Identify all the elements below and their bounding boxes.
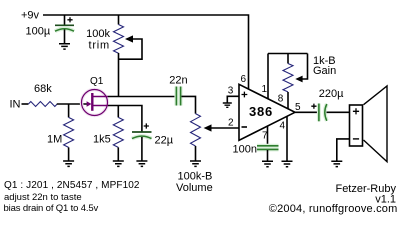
capacitor 22u (source bypass) — [132, 123, 174, 146]
pin 1 wire up to gain rail — [267, 54, 269, 99]
svg-text:386: 386 — [249, 104, 273, 119]
svg-text:Volume: Volume — [176, 182, 213, 194]
capacitor 220u (output) — [311, 88, 344, 121]
svg-text:Q1 : J201 , 2N5457 , MPF102: Q1 : J201 , 2N5457 , MPF102 — [4, 180, 140, 191]
wire source junction down to 1k5 — [117, 106, 119, 118]
ground (100n) — [262, 161, 273, 166]
svg-text:Gain: Gain — [313, 65, 336, 77]
wire trim bottom to drain line — [118, 53, 120, 97]
ground (speaker) — [331, 161, 342, 166]
trim wiper arrow — [125, 35, 133, 42]
wire trim drop from rail — [118, 15, 120, 25]
wire 68k to gate — [57, 103, 87, 105]
svg-text:2: 2 — [228, 118, 234, 129]
wire source line to 22u — [108, 106, 142, 132]
svg-text:100k-B: 100k-B — [178, 171, 213, 183]
wire gain wiper bracket — [302, 54, 308, 80]
capacitor 22n (coupling) — [169, 75, 187, 106]
wire pin 5 to 220u — [295, 111, 318, 113]
svg-text:+9v: +9v — [21, 10, 40, 22]
resistor 1k-B gain pot — [283, 54, 336, 92]
svg-text:100n: 100n — [233, 143, 257, 155]
wire speaker minus to ground — [337, 139, 350, 161]
svg-text:Q1: Q1 — [90, 76, 104, 87]
resistor 68k — [28, 83, 57, 107]
wire 22n to volume pot — [182, 96, 196, 113]
pin 7 wire to 100n — [267, 126, 269, 145]
svg-text:4: 4 — [280, 121, 286, 132]
pin 4 wire to ground — [286, 116, 288, 161]
svg-text:1M: 1M — [47, 134, 62, 146]
wire +9v rail to pin 6 — [43, 15, 249, 89]
wire 100u to ground — [64, 30, 66, 44]
pin 8 wire from gain resistor — [287, 92, 289, 109]
svg-text:100µ: 100µ — [26, 26, 51, 38]
svg-text:22µ: 22µ — [155, 135, 174, 147]
svg-text:8: 8 — [278, 94, 284, 105]
svg-text:5: 5 — [295, 102, 301, 113]
svg-text:©2004, runoffgroove.com: ©2004, runoffgroove.com — [269, 203, 398, 215]
svg-text:1: 1 — [262, 84, 268, 95]
svg-text:68k: 68k — [34, 83, 52, 95]
resistor 100k-B volume pot — [176, 114, 213, 194]
ground (100u) — [59, 44, 70, 49]
svg-text:100k: 100k — [86, 28, 110, 40]
svg-text:7: 7 — [262, 131, 268, 142]
svg-text:3: 3 — [228, 86, 234, 97]
wire trim wiper bracket — [119, 39, 143, 59]
transistor Q1 JFET — [82, 76, 109, 116]
wire gain top rail — [268, 53, 308, 55]
ground (1k5) — [113, 161, 124, 166]
wire volume wiper to pin 2 — [211, 127, 240, 129]
resistor 100k trim — [86, 25, 123, 54]
wire 220u to speaker — [327, 111, 350, 113]
svg-text:6: 6 — [241, 74, 247, 85]
svg-text:bias drain of Q1 to 4.5v: bias drain of Q1 to 4.5v — [4, 203, 99, 214]
resistor 1M — [47, 104, 74, 161]
volume wiper arrow — [204, 124, 212, 131]
pin 3 wire to ground — [227, 96, 239, 102]
speaker — [350, 86, 388, 162]
capacitor 100u (electrolytic filter) — [26, 17, 75, 37]
svg-text:22n: 22n — [169, 75, 187, 87]
ground (22u) — [136, 161, 147, 166]
svg-text:IN: IN — [10, 99, 21, 111]
ground (volume) — [190, 161, 201, 166]
svg-text:1k5: 1k5 — [93, 134, 111, 146]
wire volume pot to ground — [195, 146, 197, 161]
gain wiper arrow — [295, 76, 302, 83]
wire 100n to ground — [267, 150, 269, 161]
wire 22u to ground — [141, 137, 143, 161]
svg-text:adjust 22n to taste: adjust 22n to taste — [4, 192, 82, 203]
ground (pin 4) — [282, 161, 293, 166]
op-amp U1 386 — [239, 84, 295, 140]
ground (pin 3) — [223, 103, 232, 107]
capacitor 100n (bypass pin 7) — [233, 143, 279, 155]
wire drain line to 22n — [108, 96, 176, 98]
resistor 1k5 — [93, 117, 123, 160]
wire 100u drop from rail — [64, 15, 66, 25]
svg-text:220µ: 220µ — [319, 88, 344, 100]
wire IN stub — [22, 103, 29, 105]
svg-text:trim: trim — [88, 40, 110, 52]
ground (1M) — [63, 161, 74, 166]
